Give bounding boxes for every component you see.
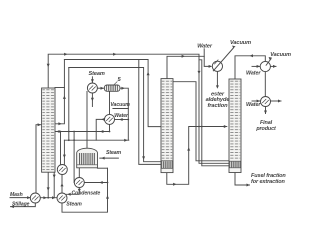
arrow row CD-CE 1 xyxy=(43,196,46,199)
wire drop to CB left xyxy=(73,132,75,183)
wire col3 bottoms outlet xyxy=(235,173,250,186)
svg-text:Water: Water xyxy=(197,44,213,50)
wire second diagonal inside mid condenser xyxy=(214,60,218,65)
wire line C to col2 bottom xyxy=(69,68,161,162)
column 3 final column xyxy=(229,79,241,173)
wire line C left drop xyxy=(68,68,70,141)
wire col1 bottom to exchanger row xyxy=(47,172,49,198)
arrow feed into col1 xyxy=(38,123,41,126)
arrow down below CB xyxy=(78,189,81,192)
arrow up on col3 feed riser xyxy=(187,147,190,150)
svg-text:Steam: Steam xyxy=(66,202,82,208)
wire final product down xyxy=(265,107,267,114)
wire col1 top jog xyxy=(55,87,64,89)
arrow into col3 feed xyxy=(224,125,227,128)
arrow on circle2 condensate line xyxy=(100,130,103,133)
svg-text:for extraction: for extraction xyxy=(251,179,285,185)
wire water feed into mid condenser xyxy=(203,49,205,57)
wire col1 upper right port and riser xyxy=(55,60,64,124)
wire col1 bottom left drop xyxy=(53,172,55,198)
heat exchanger CF xyxy=(57,165,67,175)
wire circle1 left drop to reboiler dome xyxy=(86,92,88,150)
arrow col1 out right xyxy=(58,122,61,125)
arrow up on bottom loop riser xyxy=(106,195,109,198)
arrow down col1 riser xyxy=(47,64,50,67)
svg-text:fraction: fraction xyxy=(207,103,228,109)
wire parallel riser pair to col3 bottom xyxy=(199,60,229,166)
wire y140 cross line xyxy=(64,139,128,141)
heat exchanger C1 steam heater xyxy=(87,83,97,93)
wire col2 bottoms to col3 feed xyxy=(167,127,227,185)
arrow into vessel5 xyxy=(101,87,104,90)
wire stillage outlet xyxy=(11,203,36,206)
svg-text:Condensate: Condensate xyxy=(72,191,101,197)
arrow line A 1 xyxy=(64,53,67,56)
condenser mid column xyxy=(212,61,222,71)
heat exchanger CB condensate pump xyxy=(74,178,84,188)
arrow after vessel5 xyxy=(121,87,124,90)
wire condenser1 outlet right xyxy=(270,65,276,67)
svg-text:Water: Water xyxy=(246,102,261,108)
arrow water into condenser2 xyxy=(257,100,260,103)
arrow into col1 left xyxy=(56,130,59,133)
svg-text:Mash: Mash xyxy=(10,192,23,198)
wire water line into circle2 xyxy=(114,119,128,121)
wire water into condenser2 xyxy=(252,100,260,102)
wire line B to col2 feed xyxy=(64,60,160,127)
svg-text:Vacuum: Vacuum xyxy=(270,52,291,58)
wire circle1 to vessel5 xyxy=(97,87,104,89)
arrow down x196.8 xyxy=(198,71,201,74)
wire CE bottom loop to reboiler riser xyxy=(62,168,108,212)
arrows xyxy=(11,46,282,209)
wire CF right riser xyxy=(63,140,65,164)
reboiler vessel with dome xyxy=(77,148,98,168)
arrow col3 vapor return left xyxy=(250,54,253,57)
arrow steam into circle1 xyxy=(91,79,94,82)
wire circle2 condensate to col1 xyxy=(55,124,110,131)
wire vessel5 drain to circle2 xyxy=(109,91,111,114)
arrow out of circle2 left xyxy=(101,118,104,121)
wire steam arrow stub into circle1 xyxy=(91,77,93,83)
wire col1 top vapor line A xyxy=(48,54,229,163)
condenser right bottom xyxy=(261,97,271,107)
arrow down on col1 left drop xyxy=(53,175,56,178)
wire mash inlet xyxy=(10,197,30,199)
wire col2 vapor to condenser xyxy=(167,56,211,78)
wire condenser2 outlet right xyxy=(271,100,281,102)
wire col2 right side to col3 bottom xyxy=(173,82,229,161)
arrow down on CF riser xyxy=(63,155,66,158)
arrow into CB right xyxy=(99,181,102,184)
arrow below circle1 xyxy=(91,98,94,101)
svg-text:Steam: Steam xyxy=(106,150,122,156)
wire condenser1 to condenser2 xyxy=(264,72,266,97)
wire vessel5 outlet down line xyxy=(120,88,128,140)
arrow row CD-CE 2 xyxy=(52,196,55,199)
wire third col2 bottom feed xyxy=(139,60,161,165)
arrow final product down xyxy=(264,111,267,114)
column 2 rectifying column xyxy=(161,79,173,173)
vessel 5 horizontal evaporator xyxy=(104,82,120,92)
arrow vacuum diagonal mid xyxy=(232,46,236,49)
wire reboiler top to CB xyxy=(78,168,80,178)
wire CB to riser xyxy=(85,182,108,184)
arrow on y140 line xyxy=(124,139,127,142)
arrow water toward circle2 xyxy=(119,118,122,121)
wire steam line into reboiler xyxy=(100,157,119,159)
condenser right top xyxy=(260,61,270,71)
wire circle1 bottom drop xyxy=(91,93,93,106)
wire mid condenser bottom outlet xyxy=(216,71,218,86)
svg-text:product: product xyxy=(255,126,276,132)
arrow up col1 reflux riser xyxy=(63,96,66,99)
wire reboiler bottom elbow xyxy=(97,167,107,169)
arrow condensate into CE xyxy=(67,193,70,196)
arrow steam into reboiler xyxy=(101,157,104,160)
heat exchanger CE steam heater xyxy=(57,193,67,203)
svg-text:Steam: Steam xyxy=(89,71,105,77)
arrow into mid condenser xyxy=(209,65,212,68)
wire vacuum line under label xyxy=(113,108,128,110)
arrow down on col2 lower feed xyxy=(142,156,145,159)
arrow vacuum diagonal right xyxy=(269,57,272,60)
heat exchanger C2 vacuum condenser xyxy=(105,114,115,124)
wire circle2 left outlet xyxy=(96,119,104,140)
wire condensate link xyxy=(66,188,79,195)
svg-text:Stillage: Stillage xyxy=(12,201,30,207)
arrow fusel out xyxy=(247,184,250,187)
svg-text:Vacuum: Vacuum xyxy=(230,40,251,46)
arrow up x148 xyxy=(147,72,150,75)
wire water into condenser1 xyxy=(252,65,260,67)
arrow col2 vapor xyxy=(182,55,185,58)
column 1 mash column xyxy=(42,88,55,172)
svg-text:Vacuum: Vacuum xyxy=(110,102,130,108)
arrow col2 bottoms right xyxy=(173,183,176,186)
junction dots xyxy=(47,119,202,199)
wire col3 top vapor xyxy=(235,56,265,79)
wire mash preheat riser to col1 feed xyxy=(36,125,41,193)
arrow condenser1 out xyxy=(273,65,276,68)
svg-text:Water: Water xyxy=(246,70,261,76)
wire vacuum diagonal right condenser xyxy=(266,58,272,65)
arrow water into condenser1 xyxy=(257,65,260,68)
wire vacuum diagonal mid condenser xyxy=(213,48,234,72)
arrow mash into CD xyxy=(27,196,30,199)
svg-text:Water: Water xyxy=(114,113,129,119)
arrow stillage out xyxy=(11,205,14,208)
svg-text:Fusel fraction: Fusel fraction xyxy=(251,173,286,179)
arrow line A 2 xyxy=(113,53,116,56)
arrow ester fraction down xyxy=(216,85,219,88)
arrow condenser2 out xyxy=(278,100,281,103)
wire CF bottom to CE xyxy=(61,175,63,193)
wire exchanger row CD-CE xyxy=(41,197,57,199)
arrow up CF to CE link xyxy=(61,183,64,186)
arrow col1 bottom down xyxy=(47,187,50,190)
wire col1 reflux return riser to CF xyxy=(60,132,62,165)
heat exchanger CD mash preheater xyxy=(30,193,40,203)
